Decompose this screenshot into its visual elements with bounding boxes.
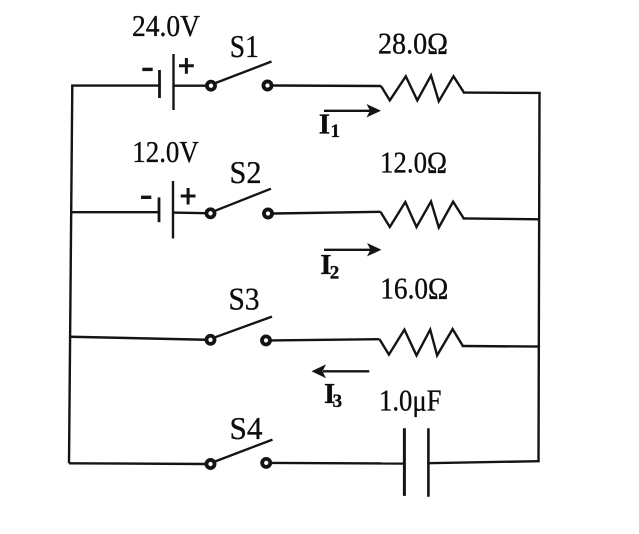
- wire branch1 left segment: [72, 84, 159, 86]
- wire branch2 left segment: [71, 211, 159, 213]
- svg-text:12.0Ω: 12.0Ω: [380, 144, 447, 179]
- battery B2 12.0V negative plate: [158, 197, 161, 222]
- label I3: [324, 378, 342, 412]
- svg-text:S3: S3: [229, 280, 260, 316]
- switch S2 left contact: [206, 209, 214, 217]
- wire branch4 switch to capacitor: [271, 462, 404, 465]
- wire branch3 switch to resistor: [271, 339, 380, 340]
- battery B2 minus sign: [141, 196, 151, 199]
- switch S3 blade: [215, 317, 272, 338]
- battery B1 24.0V positive plate: [172, 54, 174, 110]
- current arrow I2: [324, 243, 382, 256]
- label S3: [229, 280, 260, 316]
- label 1.0uF: [379, 383, 442, 418]
- svg-text:28.0Ω: 28.0Ω: [378, 25, 448, 60]
- capacitor C1 right plate: [427, 428, 430, 497]
- wire branch1 battery to switch: [174, 84, 207, 86]
- resistor R3 16.0 ohm zigzag: [380, 329, 463, 355]
- label 28.0 ohm: [378, 25, 448, 60]
- svg-text:S4: S4: [230, 410, 263, 446]
- label S1: [230, 28, 259, 64]
- label 24.0V: [132, 8, 201, 43]
- svg-text:12.0V: 12.0V: [132, 134, 199, 169]
- wire branch1 switch to resistor: [273, 84, 382, 87]
- svg-text:1.0μF: 1.0μF: [379, 383, 442, 418]
- wire right rail: [539, 93, 540, 461]
- wire branch4 left segment: [69, 462, 206, 465]
- switch S4 right contact: [262, 459, 270, 467]
- label I2: [320, 249, 339, 284]
- wire branch3 left segment: [70, 337, 206, 340]
- battery B2 plus sign: [181, 188, 196, 205]
- svg-text:24.0V: 24.0V: [132, 8, 201, 43]
- wire left rail: [69, 86, 72, 464]
- battery B1 24.0V negative plate: [158, 70, 161, 98]
- svg-text:16.0Ω: 16.0Ω: [380, 271, 448, 306]
- wire branch2 battery to switch: [173, 211, 206, 214]
- switch S3 left contact: [206, 336, 214, 344]
- label S4: [230, 410, 263, 446]
- battery B2 12.0V positive plate: [172, 181, 174, 239]
- label S2: [230, 154, 262, 190]
- wire branch2 resistor to right rail: [464, 217, 539, 220]
- switch S1 left contact: [207, 82, 215, 90]
- battery B1 plus sign: [179, 58, 194, 74]
- wire branch1 resistor to right rail: [464, 91, 540, 94]
- switch S3 right contact: [262, 336, 270, 344]
- resistor R2 12.0 ohm zigzag: [381, 202, 464, 228]
- battery B1 minus sign: [142, 68, 152, 71]
- svg-text:2: 2: [330, 263, 340, 284]
- wire branch4 capacitor to right rail: [428, 461, 538, 463]
- capacitor C1 left plate: [403, 428, 406, 496]
- svg-text:S1: S1: [230, 28, 259, 64]
- wire branch2 switch to resistor: [273, 212, 381, 214]
- label I1: [319, 108, 340, 142]
- wire branch3 resistor to right rail: [463, 345, 539, 348]
- svg-text:1: 1: [331, 121, 341, 142]
- label 12.0 ohm: [380, 144, 447, 179]
- switch S2 blade: [215, 189, 271, 211]
- current arrow I1: [324, 104, 381, 117]
- svg-text:I: I: [319, 108, 330, 140]
- switch S4 left contact: [206, 460, 214, 468]
- svg-text:3: 3: [333, 391, 343, 412]
- switch S4 blade: [215, 440, 273, 462]
- label 16.0 ohm: [380, 271, 448, 306]
- switch S2 right contact: [264, 209, 272, 217]
- svg-text:S2: S2: [230, 154, 262, 190]
- switch S1 blade: [216, 62, 272, 84]
- label 12.0V: [132, 134, 199, 169]
- switch S1 right contact: [263, 81, 271, 89]
- resistor R1 28.0 ohm zigzag: [381, 76, 464, 102]
- current arrow I3: [312, 364, 370, 378]
